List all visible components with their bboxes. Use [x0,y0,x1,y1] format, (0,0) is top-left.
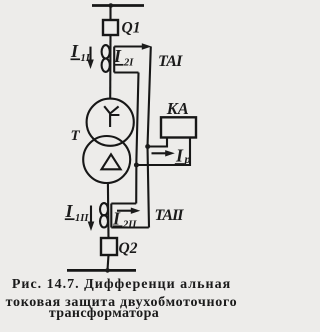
wire transformer to Q2 [107,183,110,238]
transformer T lower circle [83,136,130,183]
wire TAII top lead [111,202,136,204]
svg-text:2I: 2I [123,58,134,69]
CT TAII secondary line [110,204,112,228]
relay KA box [161,117,196,137]
node: dot on outer conductor [145,144,150,149]
delta symbol [102,154,121,169]
svg-text:Q2: Q2 [119,240,138,257]
svg-text:2II: 2II [122,220,137,231]
underline I1II [65,218,75,220]
svg-text:1II: 1II [75,213,89,224]
underline I1I [71,58,81,60]
underline I2II [113,225,123,227]
node: top bus junction [109,3,114,8]
wire TA1 bottom lead [114,71,138,73]
svg-text:I: I [65,201,74,221]
breaker Q2 [101,238,117,255]
wire KA right lead [136,138,190,166]
svg-text:T: T [71,128,81,144]
svg-text:1I: 1I [81,53,91,64]
svg-text:I: I [113,46,122,66]
arrow I1I down [89,47,91,61]
arrow I2II [117,210,133,212]
CT TAII primary winding bumps [100,203,108,215]
wire outer secondary conductor [148,47,151,228]
svg-text:I: I [70,41,79,61]
wire TAII bottom lead [111,226,149,228]
CT TA1 secondary line [113,47,115,73]
arrow Ip [152,152,168,154]
CT TA1 primary winding bumps [102,45,110,58]
transformer T upper circle [87,99,134,146]
underline I2I [114,64,124,66]
caption line 1 [0,277,243,293]
arrow I1II down [90,206,92,224]
node: bottom bus junction [105,268,110,273]
wye symbol [104,106,119,127]
top busbar [92,4,144,7]
svg-text:I: I [175,146,184,166]
wire inner secondary conductor [136,73,138,204]
wire KA left lead [148,138,168,147]
svg-text:Q1: Q1 [122,20,141,37]
node: dot on inner conductor [134,163,139,168]
wire Q1 to transformer [109,35,111,99]
caption line 3 [0,306,208,322]
caption line 2 [0,295,243,311]
wire Q2 to bottom bus [108,255,109,270]
svg-text:TAII: TAII [155,207,185,224]
svg-text:KA: KA [166,99,189,118]
breaker Q1 [103,20,118,35]
bottom busbar [67,269,136,272]
wire bus to Q1 [109,6,111,21]
underline Ip [175,163,185,165]
svg-text:TAI: TAI [158,53,183,70]
svg-text:p: p [184,152,191,166]
wire TA1 top lead with I2I arrow [114,45,146,47]
